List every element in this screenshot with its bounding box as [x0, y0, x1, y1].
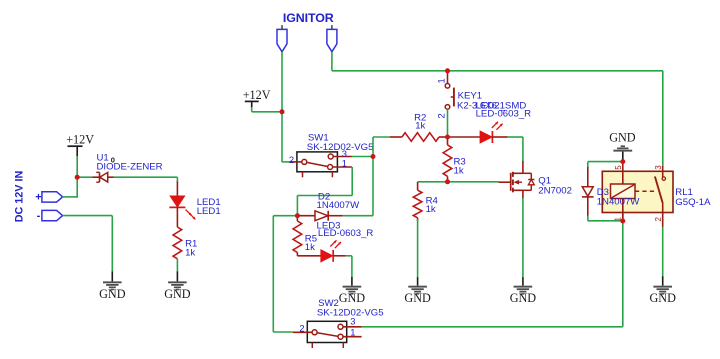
junction	[620, 219, 625, 224]
svg-text:2: 2	[299, 322, 304, 333]
wire	[447, 109, 449, 137]
svg-text:+12V: +12V	[66, 133, 94, 147]
net port label IGNITOR	[283, 11, 334, 25]
svg-text:IGNITOR: IGNITOR	[283, 11, 334, 25]
wire	[282, 52, 292, 162]
connector + flag	[42, 192, 63, 202]
svg-text:2N7002: 2N7002	[538, 186, 572, 197]
junction	[371, 154, 376, 159]
connector - pin label	[37, 210, 41, 222]
svg-text:1k: 1k	[185, 248, 195, 259]
wire	[508, 137, 523, 162]
wire	[522, 198, 524, 278]
diode D2	[297, 191, 360, 220]
resistor R3	[443, 137, 466, 182]
svg-text:1: 1	[436, 78, 447, 83]
svg-text:1: 1	[350, 327, 355, 338]
svg-text:1: 1	[342, 158, 347, 169]
svg-text:5: 5	[614, 165, 623, 170]
zener diode U1	[93, 152, 163, 182]
svg-text:G5Q-1A: G5Q-1A	[675, 197, 711, 208]
wire	[63, 216, 113, 272]
ground	[164, 272, 191, 301]
svg-text:GND: GND	[510, 291, 537, 305]
svg-text:GND: GND	[339, 291, 366, 305]
svg-text:+12V: +12V	[243, 88, 271, 102]
svg-text:-: -	[37, 210, 41, 222]
svg-text:1k: 1k	[305, 242, 315, 253]
ground	[339, 277, 366, 305]
connector - flag	[42, 210, 63, 220]
net label DC 12V IN	[14, 171, 26, 223]
wire	[346, 256, 352, 278]
wire	[297, 167, 352, 216]
junction	[620, 159, 625, 164]
svg-text:LED-0603_R: LED-0603_R	[476, 108, 532, 119]
resistor R2	[390, 112, 448, 141]
slide switch SW2	[293, 298, 384, 348]
svg-text:2: 2	[654, 217, 663, 222]
svg-text:2: 2	[289, 154, 294, 165]
svg-text:LED-0603_R: LED-0603_R	[318, 228, 374, 239]
svg-text:GND: GND	[649, 291, 676, 305]
ground	[510, 277, 537, 305]
LED LED3	[297, 221, 373, 262]
wire	[343, 215, 373, 217]
wire	[417, 219, 419, 278]
svg-text:+: +	[35, 191, 41, 203]
connector IGNITOR pin 1	[277, 25, 287, 52]
svg-text:LED1: LED1	[197, 206, 221, 217]
svg-text:2: 2	[436, 113, 447, 118]
diode D3	[582, 167, 640, 217]
wire	[373, 137, 390, 216]
svg-text:1N4007W: 1N4007W	[317, 200, 361, 211]
wire	[176, 259, 178, 272]
ground (above relay)	[609, 131, 636, 160]
svg-text:DIODE-ZENER: DIODE-ZENER	[97, 162, 163, 173]
svg-text:GND: GND	[404, 291, 431, 305]
resistor R4	[413, 182, 438, 221]
wire	[63, 177, 78, 198]
wire	[252, 107, 282, 112]
svg-text:GND: GND	[99, 287, 126, 301]
svg-text:GND: GND	[164, 287, 191, 301]
wire	[352, 156, 373, 158]
junction	[75, 175, 80, 180]
svg-text:1k: 1k	[415, 121, 425, 132]
wire	[76, 177, 177, 182]
svg-text:1N4007W: 1N4007W	[597, 196, 641, 207]
connector IGNITOR pin 2	[327, 25, 337, 52]
mosfet Q1	[499, 161, 572, 199]
relay RL1	[602, 162, 711, 227]
junction	[280, 109, 285, 114]
wire	[588, 162, 623, 169]
junction	[445, 68, 450, 73]
wire	[76, 156, 78, 177]
svg-text:GND: GND	[609, 131, 636, 145]
connector + pin label	[35, 191, 41, 203]
power flag +12V (left)	[66, 133, 94, 157]
ground	[404, 277, 431, 305]
ground	[649, 276, 676, 305]
junction	[445, 179, 450, 184]
LED LED1	[169, 182, 220, 228]
junction	[295, 213, 300, 218]
svg-text:3: 3	[350, 316, 355, 327]
ground	[99, 272, 126, 301]
resistor R5	[293, 216, 317, 256]
svg-text:1k: 1k	[426, 204, 436, 215]
push button KEY1	[436, 71, 506, 119]
wire	[332, 52, 663, 167]
svg-text:DC 12V IN: DC 12V IN	[14, 171, 26, 223]
svg-text:3: 3	[654, 165, 663, 170]
wire	[362, 221, 623, 327]
LED LED2_SMD	[448, 101, 532, 143]
slide switch SW1	[289, 133, 374, 178]
wire	[588, 216, 623, 221]
junction	[445, 135, 450, 140]
wire	[418, 181, 499, 183]
svg-text:1k: 1k	[454, 166, 464, 177]
resistor R1	[173, 227, 197, 259]
wire	[662, 227, 664, 277]
power flag +12V (middle)	[243, 88, 271, 108]
wire	[273, 216, 297, 332]
